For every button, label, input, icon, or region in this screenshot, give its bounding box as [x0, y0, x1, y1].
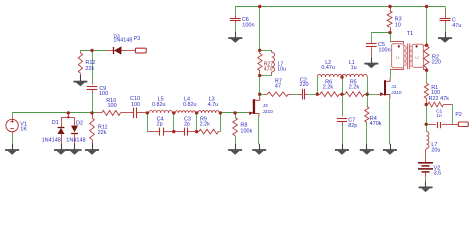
- svg-text:2.2k: 2.2k: [200, 122, 210, 128]
- label R5 2.2k: [349, 79, 360, 90]
- resistor R2 220: [424, 46, 429, 70]
- label R7 47: [275, 79, 282, 90]
- capacitor C10 100: [121, 108, 148, 119]
- capacitor C1 1n: [426, 122, 452, 128]
- label R3 10: [395, 17, 402, 29]
- svg-text:100: 100: [131, 102, 140, 108]
- ground below D2: [74, 144, 76, 150]
- svg-text:J310: J310: [391, 90, 402, 96]
- label C1 1n: [436, 109, 442, 120]
- label C 47u: [452, 18, 462, 30]
- svg-text:22k: 22k: [85, 66, 94, 72]
- wire node B vertical: [342, 77, 344, 94]
- wire J3 drain up: [259, 94, 261, 96]
- svg-text:100: 100: [108, 103, 117, 109]
- label V2 3,5: [434, 165, 442, 176]
- svg-text:P3: P3: [134, 36, 140, 42]
- svg-text:D2: D2: [76, 120, 83, 126]
- resistor R22 47k: [426, 102, 452, 107]
- node R3 bottom: [388, 31, 391, 34]
- node rail R27 column: [258, 5, 261, 8]
- wire rail to transformer column: [426, 7, 428, 46]
- connector P3: [135, 48, 146, 53]
- label R8 100k: [240, 122, 252, 134]
- node filter 2: [172, 111, 175, 114]
- svg-text:1u: 1u: [351, 65, 357, 71]
- ground below R12: [80, 75, 82, 81]
- wire R27 column to rail: [259, 7, 261, 51]
- label C7 82p: [348, 118, 357, 129]
- resistor R10 100: [97, 110, 121, 115]
- svg-text:J1: J1: [391, 84, 396, 90]
- transistor J3 J310 (JFET): [249, 97, 260, 118]
- wire J3 source to ground: [258, 117, 260, 144]
- ground below C: [445, 32, 447, 38]
- label V1 1K: [20, 121, 27, 132]
- label R2 220: [432, 55, 441, 66]
- wire node C vertical up: [367, 77, 369, 94]
- voltage source V1: [6, 113, 18, 144]
- battery V2 3,5: [418, 163, 433, 182]
- wire top supply rail: [235, 6, 445, 8]
- resistor R7 47: [260, 92, 298, 96]
- svg-text:470: 470: [264, 66, 273, 72]
- wire drain column: [259, 76, 261, 95]
- label R11 22k: [98, 125, 108, 136]
- node D1/D2 junction: [67, 111, 70, 118]
- resistor R3 10: [387, 7, 392, 33]
- label R6 2.2k: [323, 79, 334, 90]
- inductor L1 1u: [342, 74, 367, 77]
- label C3 2p: [184, 116, 191, 127]
- svg-text:J3: J3: [263, 103, 268, 109]
- wire main input row: [12, 112, 96, 114]
- wire J1 drain up: [390, 70, 392, 79]
- svg-text:470k: 470k: [370, 121, 382, 127]
- node T1 secondary top: [425, 44, 428, 47]
- label J1 J310: [391, 84, 402, 96]
- node B (L2/L1/C7): [340, 93, 343, 96]
- node rail T1 column: [425, 5, 428, 8]
- capacitor C4 2p: [147, 128, 174, 136]
- ground below V2: [425, 181, 427, 187]
- svg-text:0.82u: 0.82u: [183, 102, 197, 108]
- svg-text:20u: 20u: [431, 148, 440, 154]
- label C4 2p: [157, 116, 164, 127]
- svg-text:P2: P2: [455, 112, 461, 118]
- label L5 0.82u: [152, 97, 166, 108]
- ground below C6: [235, 32, 237, 38]
- node T1 secondary bottom: [425, 69, 428, 72]
- wire R22 right down: [452, 105, 454, 125]
- resistor R8 100k: [233, 113, 238, 144]
- inductor L4 0.82u: [174, 111, 197, 113]
- wire diode branch horizontal: [61, 117, 75, 119]
- capacitor C2 220: [297, 89, 317, 100]
- svg-text:2p: 2p: [184, 122, 190, 128]
- ground below R11: [92, 144, 94, 150]
- transistor J1 J310 (JFET): [367, 79, 390, 99]
- svg-text:1N4148: 1N4148: [66, 137, 85, 143]
- capacitor C9 100 (vertical): [87, 50, 98, 113]
- label L2 0.47u: [321, 60, 335, 71]
- label L7 10u: [277, 61, 286, 72]
- svg-text:R12: R12: [85, 60, 95, 66]
- wire top-left row: [80, 50, 106, 52]
- label L3 4.7u: [208, 97, 219, 108]
- resistor R6 2.2k: [317, 92, 342, 97]
- node A (C2/L2/R6): [316, 93, 319, 96]
- label R1 100: [431, 85, 440, 96]
- resistor R1 100: [424, 70, 428, 104]
- capacitor C 47u (rail): [440, 7, 451, 33]
- resistor R11 22k: [90, 113, 95, 144]
- label D3 1N4148: [113, 33, 132, 43]
- resistor R27 470: [258, 50, 262, 75]
- ground below R8: [235, 144, 237, 150]
- label R10 100: [106, 98, 116, 109]
- wire filter out run: [220, 112, 249, 114]
- label R9 2.2k: [200, 116, 210, 127]
- svg-text:10u: 10u: [277, 66, 286, 72]
- svg-text:100: 100: [99, 91, 108, 97]
- label R4 470k: [370, 116, 382, 127]
- svg-text:J310: J310: [262, 109, 273, 115]
- node R1 bottom: [425, 103, 428, 106]
- svg-text:1N4148: 1N4148: [42, 137, 61, 143]
- svg-text:1n: 1n: [436, 113, 442, 119]
- resistor R5 2.2k: [342, 92, 367, 97]
- capacitor C7 82p: [337, 94, 347, 144]
- svg-text:4.7u: 4.7u: [208, 102, 219, 108]
- label C2 220: [299, 78, 308, 89]
- ground below R4: [366, 144, 368, 150]
- wire J1 source to ground: [389, 98, 391, 144]
- ground below V1: [12, 144, 14, 150]
- svg-text:47u: 47u: [452, 23, 461, 29]
- ground below J3 source: [259, 144, 261, 150]
- svg-text:22k: 22k: [98, 130, 107, 136]
- label L1 1u: [349, 60, 357, 71]
- label C9 100: [99, 86, 108, 97]
- capacitor C3 2p: [174, 128, 197, 136]
- node C1 left: [425, 123, 428, 126]
- node J3 drain / R7: [258, 93, 261, 96]
- label L7 20u: [431, 142, 440, 154]
- label R12 22k: [85, 60, 95, 72]
- wire R1 node to C1 node: [426, 105, 428, 125]
- node top row junction: [90, 49, 93, 52]
- svg-text:D1: D1: [52, 120, 59, 126]
- diode D3 1N4148: [106, 47, 135, 54]
- inductor L7 20u: [426, 124, 429, 162]
- ground below C7: [342, 144, 344, 150]
- svg-text:L1: L1: [396, 56, 400, 60]
- diode D1 1N4148: [58, 117, 65, 144]
- svg-text:L2: L2: [415, 56, 419, 60]
- ground below J1 source: [390, 144, 392, 150]
- capacitor C5 100n: [366, 33, 390, 58]
- wire filter loop verticals: [148, 113, 221, 132]
- svg-text:47: 47: [275, 83, 281, 89]
- resistor R4 470k: [365, 94, 369, 144]
- svg-text:0.82u: 0.82u: [152, 102, 166, 108]
- node filter 3: [195, 111, 198, 114]
- label J3 J310: [262, 103, 273, 115]
- svg-text:100k: 100k: [240, 128, 252, 134]
- resistor R12 22k: [78, 50, 82, 75]
- wire node A vertical: [317, 77, 319, 94]
- inductor L5 0.82u: [147, 110, 174, 113]
- svg-text:0.47u: 0.47u: [321, 65, 335, 71]
- resistor R9 2.2k: [197, 129, 221, 134]
- node R8 junction: [233, 111, 236, 114]
- node bottom loop junction 2: [195, 130, 198, 133]
- ground below D1: [61, 144, 63, 150]
- node R27/L7 loop bottom: [258, 74, 261, 77]
- inductor L2 0.47u: [317, 74, 342, 77]
- node rail R3: [388, 5, 391, 8]
- label R27 470: [264, 61, 274, 72]
- inductor L3 4.7u: [197, 111, 221, 113]
- transformer T1: [390, 33, 427, 70]
- svg-text:82p: 82p: [348, 123, 357, 129]
- node L2/L1 top junction: [340, 75, 343, 78]
- label C10 100: [130, 96, 140, 108]
- svg-text:2.2k: 2.2k: [323, 84, 334, 90]
- svg-text:1N4148: 1N4148: [113, 37, 132, 43]
- node filter input: [146, 111, 149, 114]
- svg-text:2p: 2p: [157, 122, 163, 128]
- svg-text:100n: 100n: [378, 47, 390, 53]
- node bottom loop junction 1: [172, 130, 175, 133]
- ground below C5: [371, 57, 373, 63]
- svg-text:2.2k: 2.2k: [349, 84, 360, 90]
- node C (L1/R5/R4/gate): [366, 93, 369, 96]
- svg-text:220: 220: [299, 82, 308, 88]
- node filter output: [219, 111, 222, 114]
- svg-text:3,5: 3,5: [434, 171, 442, 177]
- node C9/R11 junction on main row: [90, 111, 93, 114]
- svg-text:10: 10: [395, 23, 401, 29]
- inductor L7 10u (parallel choke): [260, 50, 275, 75]
- node R27/L7 loop top: [258, 49, 261, 52]
- svg-text:220: 220: [432, 60, 441, 66]
- diode D2 1N4148: [71, 117, 78, 144]
- svg-text:T1: T1: [407, 31, 413, 37]
- label L4 0.82u: [183, 97, 197, 108]
- label C6 100n: [242, 17, 255, 29]
- capacitor C6 100n (rail bypass): [230, 7, 241, 33]
- label C5 100n: [378, 42, 391, 53]
- svg-text:100n: 100n: [242, 23, 254, 29]
- connector P2: [452, 122, 468, 127]
- svg-text:1K: 1K: [20, 126, 27, 132]
- svg-text:R22 47k: R22 47k: [429, 96, 450, 102]
